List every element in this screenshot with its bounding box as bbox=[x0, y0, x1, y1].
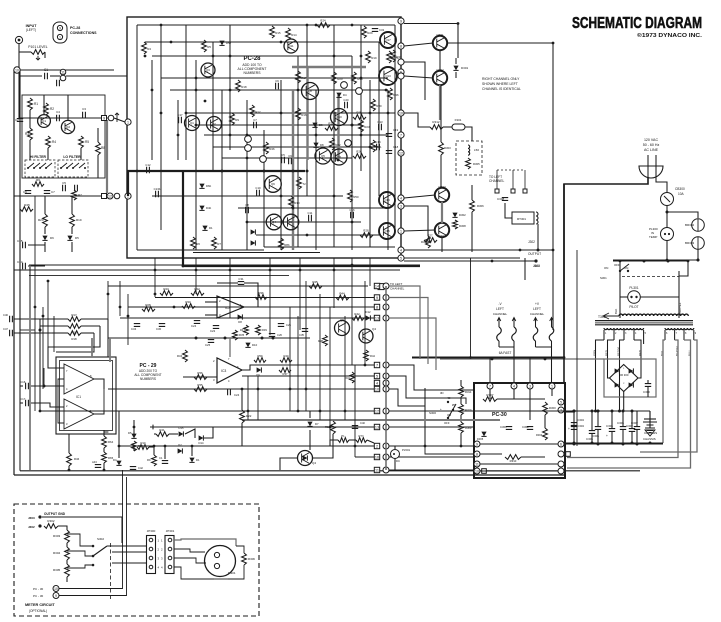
middle terminal at y411 bbox=[383, 408, 389, 414]
svg-text:D4: D4 bbox=[343, 93, 347, 97]
PC-30 9 label bbox=[33, 593, 59, 599]
svg-text:R42: R42 bbox=[354, 312, 360, 316]
resistor R28 bbox=[360, 229, 373, 238]
cap bank top bus bbox=[565, 410, 650, 413]
cap C17b bbox=[20, 397, 28, 406]
PC-28 right terminal 5 bbox=[398, 255, 404, 261]
diode D9c bbox=[256, 367, 261, 377]
svg-text:D12: D12 bbox=[365, 310, 371, 314]
RT301 box bbox=[512, 212, 538, 224]
svg-text:Q3: Q3 bbox=[206, 68, 210, 72]
fuse F-V a bbox=[497, 318, 502, 348]
bridge top bus bbox=[440, 358, 604, 360]
terminal 12 bbox=[107, 193, 113, 199]
capacitor C32 bbox=[372, 28, 385, 32]
fuse F+V b bbox=[549, 318, 554, 348]
diode D5b bbox=[128, 431, 137, 438]
resistor R15 bbox=[270, 26, 281, 38]
secondary pin numbers bbox=[605, 332, 697, 335]
resistor R6a bbox=[32, 178, 44, 186]
left wire connect 1 bbox=[20, 330, 35, 470]
to left channel label2 bbox=[378, 282, 405, 291]
svg-text:8: 8 bbox=[376, 306, 378, 310]
svg-text:R45: R45 bbox=[24, 203, 30, 207]
middle terminal at y457 bbox=[383, 454, 389, 460]
meter dashed divider bbox=[110, 543, 112, 601]
op-amp IC1a bbox=[64, 364, 94, 394]
svg-text:R9: R9 bbox=[235, 118, 239, 122]
switch S300 contacts bbox=[447, 401, 456, 419]
drop BLU bbox=[567, 340, 691, 468]
resistor R21 bbox=[325, 122, 338, 131]
svg-text:C40: C40 bbox=[360, 421, 365, 425]
svg-text:PC-28: PC-28 bbox=[70, 26, 80, 30]
svg-text:C18: C18 bbox=[393, 145, 399, 149]
svg-text:Q15: Q15 bbox=[384, 229, 390, 233]
cap C6 bbox=[23, 190, 31, 194]
meter wrap wires bbox=[205, 539, 244, 579]
diode D1 bbox=[202, 226, 213, 231]
svg-text:C13b: C13b bbox=[154, 187, 161, 191]
svg-text:R303: R303 bbox=[444, 146, 451, 150]
vertical wire x470 bbox=[470, 258, 472, 358]
transistor Q303 bbox=[435, 185, 449, 202]
drop BLYEL bbox=[567, 340, 678, 458]
svg-text:SCHEMATIC DIAGRAM: SCHEMATIC DIAGRAM bbox=[572, 15, 702, 32]
svg-text:C46: C46 bbox=[3, 313, 8, 317]
op-amp IC3 bbox=[213, 357, 242, 383]
resistor R309 bbox=[536, 428, 547, 440]
lo filter switch box bbox=[58, 160, 88, 177]
row y275 wire bbox=[29, 274, 289, 276]
svg-text:P1: P1 bbox=[341, 434, 345, 438]
PC-29 label bbox=[134, 363, 161, 381]
cap C304 bbox=[571, 411, 585, 444]
heavy mid bus bbox=[412, 184, 564, 383]
svg-text:Q2: Q2 bbox=[66, 125, 70, 129]
switch taps bbox=[67, 534, 93, 568]
svg-text:C4: C4 bbox=[56, 110, 60, 114]
terminal 11a bbox=[60, 69, 66, 75]
resistor R25v bbox=[387, 51, 400, 63]
svg-text:C13: C13 bbox=[377, 120, 383, 124]
resistor R31 bbox=[371, 140, 382, 152]
svg-text:C6: C6 bbox=[23, 190, 27, 194]
svg-text:9: 9 bbox=[376, 296, 378, 300]
svg-text:1: 1 bbox=[59, 35, 61, 39]
fuse bottoms bbox=[499, 347, 552, 383]
cap C7a bbox=[44, 190, 55, 194]
svg-text:R50: R50 bbox=[353, 195, 359, 199]
bus row y307 bbox=[128, 306, 374, 308]
bus row y389 bbox=[108, 388, 374, 390]
lo filter contacts bbox=[60, 163, 86, 169]
PC-28 label bbox=[238, 56, 267, 75]
legend terminal 1 bbox=[57, 34, 62, 39]
svg-text:C2: C2 bbox=[15, 118, 19, 122]
svg-text:R33: R33 bbox=[396, 55, 402, 59]
svg-text:R36: R36 bbox=[258, 291, 264, 295]
cap C24c bbox=[228, 389, 240, 397]
svg-text:4: 4 bbox=[376, 382, 378, 386]
transistor Q4b bbox=[298, 451, 317, 466]
cap C307 bbox=[631, 411, 640, 444]
chassis ground bbox=[644, 411, 657, 435]
svg-text:R77: R77 bbox=[359, 434, 364, 438]
svg-text:C24: C24 bbox=[191, 324, 197, 328]
resistor R33 bbox=[391, 50, 402, 62]
capacitor C18 bbox=[386, 145, 399, 153]
PC-28 right terminal 8 bbox=[398, 43, 404, 49]
capacitor C8 bbox=[245, 203, 249, 213]
capacitor C20 bbox=[343, 98, 349, 108]
AC plug prongs bbox=[648, 155, 656, 177]
gray bus down left bbox=[29, 265, 31, 470]
svg-text:R3: R3 bbox=[25, 132, 29, 136]
svg-text:Q2: Q2 bbox=[212, 122, 216, 126]
6A FAST label bbox=[499, 351, 512, 355]
cap C3 bbox=[82, 107, 86, 118]
left wires lower bbox=[20, 196, 72, 330]
row y252 wire bbox=[193, 252, 320, 254]
diode D2b bbox=[178, 443, 183, 454]
svg-text:R18: R18 bbox=[241, 85, 247, 89]
resistor R16 bbox=[296, 108, 307, 120]
capacitor C13b bbox=[154, 187, 161, 197]
meter feed verticals bbox=[123, 470, 127, 519]
middle pad 16 at y457 bbox=[374, 454, 379, 459]
middle terminal at y307 bbox=[383, 304, 389, 310]
lo filter label bbox=[63, 155, 81, 159]
wire terminal9 to Q301 bbox=[404, 24, 458, 59]
svg-text:Q14: Q14 bbox=[384, 198, 390, 202]
resistor R45 bbox=[352, 72, 363, 84]
vertical wire x577 bbox=[576, 250, 578, 446]
resistor R41 bbox=[345, 372, 354, 383]
resistor R304 bbox=[421, 236, 430, 248]
resistor R18h bbox=[68, 331, 81, 341]
svg-text:1: 1 bbox=[400, 229, 402, 233]
svg-text:C31: C31 bbox=[238, 277, 244, 281]
terminal 12b bbox=[114, 193, 120, 199]
resistor R12v bbox=[325, 421, 335, 434]
legend terminal 9 bbox=[57, 25, 62, 30]
middle pad 13 at y318 bbox=[374, 315, 379, 320]
svg-text:PC-30: PC-30 bbox=[492, 412, 507, 418]
wire PL300 down bbox=[667, 241, 700, 262]
svg-text:R20: R20 bbox=[337, 77, 343, 81]
PC-28 interior vertical wires bbox=[137, 25, 395, 250]
cap C26 bbox=[269, 333, 283, 337]
long vertical right bus bbox=[552, 43, 554, 330]
PC-30 top terminal 7 bbox=[487, 383, 493, 389]
transistor Q5m bbox=[335, 318, 350, 336]
svg-text:7: 7 bbox=[376, 364, 378, 368]
svg-text:R9: R9 bbox=[147, 458, 151, 462]
resistor R30b bbox=[182, 300, 195, 308]
bridge diodes bbox=[615, 368, 634, 387]
wire loop left 3 bbox=[56, 319, 108, 357]
resistor R8b bbox=[279, 238, 290, 250]
J302 junction wires bbox=[520, 249, 553, 281]
svg-text:12: 12 bbox=[375, 410, 379, 414]
svg-text:Q4: Q4 bbox=[372, 327, 376, 331]
resistor R304m bbox=[53, 547, 69, 560]
svg-text:D9: D9 bbox=[319, 123, 323, 127]
main schematic left border inner wire bbox=[19, 70, 21, 471]
long wires from PC28 bottom bbox=[155, 258, 370, 365]
svg-text:C25: C25 bbox=[286, 323, 291, 327]
svg-text:DR 300: DR 300 bbox=[619, 373, 629, 377]
capacitor C10 bbox=[255, 186, 261, 196]
dashed channel lines bbox=[497, 170, 525, 190]
bridge wires bbox=[608, 371, 649, 411]
svg-text:9: 9 bbox=[55, 594, 57, 598]
op-amp IC2 bbox=[217, 296, 244, 318]
svg-text:120 VAC: 120 VAC bbox=[644, 138, 659, 142]
resistor R25 bbox=[353, 111, 366, 120]
hi filter contacts bbox=[27, 163, 52, 169]
meter loop wires bbox=[174, 539, 214, 579]
svg-text:C20: C20 bbox=[343, 98, 349, 102]
svg-text:R4: R4 bbox=[147, 47, 151, 51]
svg-text:ON: ON bbox=[604, 266, 608, 270]
svg-text:R1: R1 bbox=[34, 102, 38, 106]
svg-text:Q5: Q5 bbox=[340, 318, 344, 322]
resistor R300v bbox=[543, 402, 557, 415]
PC-28 right terminal 4 bbox=[398, 247, 404, 253]
svg-text:R38: R38 bbox=[318, 339, 323, 343]
middle pad 5 at y376 bbox=[374, 373, 379, 378]
resistor R40 bbox=[280, 354, 292, 362]
C46 wires bbox=[14, 319, 52, 333]
resistor R24 bbox=[317, 19, 330, 28]
middle pad 9 at y297.5 bbox=[374, 295, 379, 300]
svg-text:R304: R304 bbox=[536, 433, 543, 437]
resistor R15c bbox=[132, 441, 144, 451]
bus row y318 bbox=[120, 317, 380, 319]
cap C34 bbox=[131, 324, 140, 331]
svg-text:11: 11 bbox=[61, 70, 65, 74]
cap C14 bbox=[17, 260, 25, 269]
cap bank bottom bus bbox=[565, 443, 663, 446]
svg-text:R15: R15 bbox=[275, 31, 281, 35]
bridge outer box bbox=[604, 359, 656, 397]
resistor R310h bbox=[505, 455, 521, 463]
svg-text:D4: D4 bbox=[113, 458, 117, 462]
output gnd wire bbox=[42, 517, 122, 543]
resistor R36 bbox=[388, 88, 399, 100]
svg-text:10A: 10A bbox=[678, 192, 685, 196]
svg-text:Q4: Q4 bbox=[312, 461, 316, 465]
svg-text:16: 16 bbox=[375, 456, 379, 460]
wire mid to PC30 8 bbox=[389, 469, 474, 471]
diode D301 bbox=[453, 66, 468, 71]
PC-28 right terminal 3 bbox=[398, 203, 404, 209]
JP301 pins bbox=[161, 538, 172, 569]
cap C30 bbox=[156, 324, 165, 331]
wire R22 bbox=[241, 389, 243, 446]
PC-28 connections legend box bbox=[53, 22, 67, 43]
svg-text:D301: D301 bbox=[461, 66, 469, 70]
cap C8a bbox=[75, 185, 78, 191]
svg-text:14: 14 bbox=[375, 285, 379, 289]
svg-text:C25: C25 bbox=[205, 343, 211, 347]
pad sq A bbox=[102, 116, 107, 121]
resistor R3 bbox=[25, 128, 32, 140]
svg-text:C42: C42 bbox=[138, 466, 143, 470]
svg-text:Q1: Q1 bbox=[42, 119, 46, 123]
capacitor C12 bbox=[145, 163, 151, 173]
svg-text:J303: J303 bbox=[533, 264, 540, 268]
svg-text:R21: R21 bbox=[328, 122, 334, 126]
wire R303 bbox=[440, 85, 442, 188]
row y270 wire bbox=[14, 269, 400, 271]
IC1 outer box bbox=[56, 357, 116, 434]
svg-text:LO FILTER: LO FILTER bbox=[63, 155, 81, 159]
breaker CB300 bbox=[661, 187, 685, 206]
switch S302 bbox=[92, 537, 107, 566]
resistor T2 bbox=[297, 177, 307, 189]
svg-text:R304: R304 bbox=[53, 551, 61, 555]
svg-text:R14: R14 bbox=[291, 33, 297, 37]
transistor Q4m bbox=[359, 327, 376, 343]
svg-text:C17: C17 bbox=[20, 397, 26, 401]
wire breaker down bbox=[666, 206, 669, 228]
svg-text:R302: R302 bbox=[47, 519, 55, 523]
diode D10 bbox=[245, 343, 257, 348]
svg-text:4: 4 bbox=[513, 384, 515, 388]
wire to BR302 bbox=[667, 212, 698, 218]
resistor R22v bbox=[240, 410, 252, 423]
device D9a bbox=[245, 136, 252, 143]
svg-text:C302: C302 bbox=[522, 425, 529, 429]
cap C1b2 bbox=[159, 456, 168, 463]
bus row y470 bbox=[29, 469, 640, 471]
svg-text:C17: C17 bbox=[177, 113, 183, 117]
bridge diamond DR300 bbox=[610, 365, 639, 392]
svg-text:D6: D6 bbox=[50, 236, 54, 240]
middle terminal at y427 bbox=[383, 424, 389, 430]
svg-text:C9: C9 bbox=[288, 154, 292, 158]
middle pad 11 at y470 bbox=[374, 467, 379, 472]
bus row y427 bbox=[150, 426, 374, 428]
svg-text:Q4: Q4 bbox=[272, 220, 276, 224]
svg-text:1: 1 bbox=[127, 120, 129, 124]
wire to filter box bbox=[18, 108, 20, 118]
svg-text:PC - 30: PC - 30 bbox=[33, 594, 44, 598]
svg-text:NUMBERS: NUMBERS bbox=[244, 71, 262, 75]
cap C306 bbox=[606, 411, 615, 443]
meter M301 bbox=[205, 546, 236, 577]
resistor R42 bbox=[352, 312, 364, 320]
svg-text:R30: R30 bbox=[185, 300, 191, 304]
wire PL501 bbox=[389, 446, 395, 470]
svg-text:C304: C304 bbox=[577, 424, 584, 428]
bus row y411 bbox=[40, 410, 374, 412]
svg-text:R303: R303 bbox=[53, 534, 61, 538]
resistor R46b bbox=[67, 453, 80, 466]
device Q16 bbox=[356, 88, 363, 95]
cap C22 bbox=[210, 326, 219, 333]
bus black thick2 bbox=[183, 171, 420, 266]
bus gray v1 bbox=[306, 67, 308, 160]
bus row y297 bbox=[155, 297, 379, 299]
wire RT301 bbox=[505, 203, 538, 250]
wire mid to PC30 1 bbox=[389, 365, 474, 390]
middle terminal at y286 bbox=[383, 283, 389, 289]
svg-text:R55: R55 bbox=[197, 383, 203, 387]
pilot lamp PL301 bbox=[628, 286, 641, 309]
middle pad 12 at y411 bbox=[374, 408, 379, 413]
wire mid to PC30 6 bbox=[389, 445, 474, 447]
svg-text:LEFT: LEFT bbox=[533, 307, 541, 311]
inductor L50 bbox=[468, 145, 479, 155]
transistor Q15 bbox=[379, 223, 395, 239]
resistor R303m bbox=[53, 530, 69, 543]
svg-text:C6: C6 bbox=[275, 79, 279, 83]
transistor Q13 bbox=[379, 67, 397, 85]
svg-text:L50: L50 bbox=[474, 148, 479, 152]
fuse F+V a bbox=[533, 318, 538, 348]
svg-text:PL301: PL301 bbox=[629, 286, 638, 290]
PC-28 interior horizontal wires bbox=[137, 25, 395, 250]
svg-text:RIGHT CHANNEL ONLY: RIGHT CHANNEL ONLY bbox=[482, 77, 520, 81]
title SCHEMATIC DIAGRAM bbox=[572, 15, 702, 32]
middle pad 2 at y446 bbox=[374, 443, 379, 448]
svg-text:R39: R39 bbox=[262, 328, 267, 332]
bus row y286 bbox=[108, 285, 368, 287]
L50 dashed box bbox=[456, 141, 482, 175]
svg-text:JP301: JP301 bbox=[166, 529, 175, 533]
resistor R50 bbox=[348, 190, 359, 202]
PC-30 inner wires bbox=[480, 389, 558, 471]
wire mid to PC30 3 bbox=[389, 389, 425, 406]
terminal 11b bbox=[60, 75, 66, 81]
svg-text:R23: R23 bbox=[364, 125, 370, 129]
bottom border line lower bbox=[14, 474, 564, 476]
pad sq B bbox=[102, 194, 107, 199]
cap bank mid bus bbox=[565, 410, 637, 413]
resistor R59 bbox=[254, 354, 266, 362]
svg-text:C304: C304 bbox=[577, 418, 584, 422]
resistor R45 bbox=[20, 203, 33, 211]
bottom border line upper bbox=[20, 470, 640, 472]
middle pad 8 at y307 bbox=[374, 304, 379, 309]
input label bbox=[26, 24, 38, 32]
svg-text:7: 7 bbox=[400, 133, 402, 137]
resistor R47 bbox=[240, 325, 248, 335]
svg-text:8: 8 bbox=[476, 452, 478, 456]
wire R302 chain bbox=[58, 526, 67, 582]
svg-text:10: 10 bbox=[399, 111, 403, 115]
svg-text:10: 10 bbox=[54, 587, 58, 591]
resistor R2 bbox=[44, 103, 55, 115]
wire into terminal2 bbox=[20, 195, 101, 197]
wire mid to PC30 2 bbox=[389, 376, 466, 404]
diode D5c bbox=[219, 41, 231, 46]
middle terminal at y365 bbox=[383, 362, 389, 368]
resistor R320 bbox=[459, 404, 472, 415]
svg-text:CB300: CB300 bbox=[675, 187, 685, 191]
bus row y338 bbox=[108, 337, 310, 340]
transistor Q3 bbox=[201, 63, 215, 77]
svg-text:C308: C308 bbox=[497, 197, 505, 201]
svg-text:12: 12 bbox=[108, 194, 112, 198]
wire P1 bbox=[330, 440, 374, 446]
cap bank bottom bus bbox=[565, 442, 663, 445]
middle terminal at y446 bbox=[383, 443, 389, 449]
